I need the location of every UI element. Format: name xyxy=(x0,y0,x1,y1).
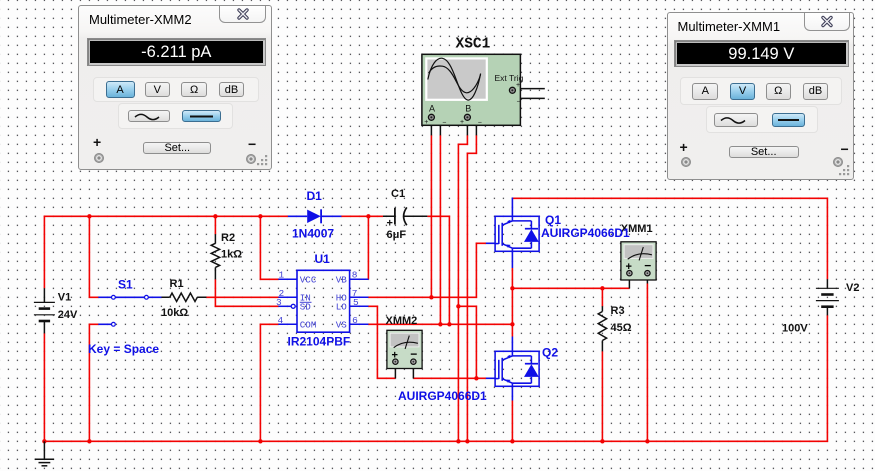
svg-text:XMM2: XMM2 xyxy=(386,315,418,327)
svg-text:IR2104PBF: IR2104PBF xyxy=(288,334,351,348)
svg-text:6: 6 xyxy=(352,315,358,326)
svg-text:1kΩ: 1kΩ xyxy=(221,249,242,261)
svg-text:VB: VB xyxy=(336,275,348,286)
svg-text:3: 3 xyxy=(276,297,282,308)
svg-text:8: 8 xyxy=(352,269,358,280)
svg-text:COM: COM xyxy=(300,320,317,331)
svg-text:LO: LO xyxy=(336,302,348,313)
svg-text:V2: V2 xyxy=(846,282,859,294)
svg-text:R1: R1 xyxy=(170,278,184,290)
svg-text:SD: SD xyxy=(300,302,312,313)
svg-text:Q1: Q1 xyxy=(545,213,561,227)
svg-text:AUIRGP4066D1: AUIRGP4066D1 xyxy=(541,226,630,240)
svg-text:−: − xyxy=(478,119,482,126)
svg-text:5: 5 xyxy=(353,297,359,308)
svg-text:Q2: Q2 xyxy=(542,346,558,360)
svg-text:VCC: VCC xyxy=(300,275,317,286)
svg-text:R3: R3 xyxy=(611,305,625,317)
svg-text:−: − xyxy=(442,119,446,126)
svg-text:+: + xyxy=(387,218,393,230)
svg-text:1: 1 xyxy=(279,269,285,280)
svg-text:+: + xyxy=(516,82,520,89)
svg-text:VS: VS xyxy=(336,320,348,331)
svg-text:6μF: 6μF xyxy=(387,229,407,241)
svg-text:AUIRGP4066D1: AUIRGP4066D1 xyxy=(398,389,487,403)
svg-text:B: B xyxy=(465,104,471,114)
svg-text:24V: 24V xyxy=(58,309,78,321)
svg-text:C1: C1 xyxy=(391,188,405,200)
svg-text:U1: U1 xyxy=(315,252,331,266)
svg-text:100V: 100V xyxy=(782,323,808,335)
svg-text:+: + xyxy=(460,119,464,126)
svg-text:45Ω: 45Ω xyxy=(611,322,632,334)
svg-text:R2: R2 xyxy=(221,232,235,244)
svg-text:1N4007: 1N4007 xyxy=(292,227,334,241)
svg-text:D1: D1 xyxy=(307,189,323,203)
svg-text:V1: V1 xyxy=(58,292,71,304)
svg-text:−: − xyxy=(517,99,521,106)
svg-text:S1: S1 xyxy=(118,278,133,292)
svg-text:4: 4 xyxy=(278,315,284,326)
svg-text:10kΩ: 10kΩ xyxy=(161,307,188,319)
svg-text:Key = Space: Key = Space xyxy=(88,342,159,356)
svg-text:A: A xyxy=(429,104,435,114)
svg-text:XSC1: XSC1 xyxy=(456,37,491,53)
svg-text:+: + xyxy=(424,119,428,126)
